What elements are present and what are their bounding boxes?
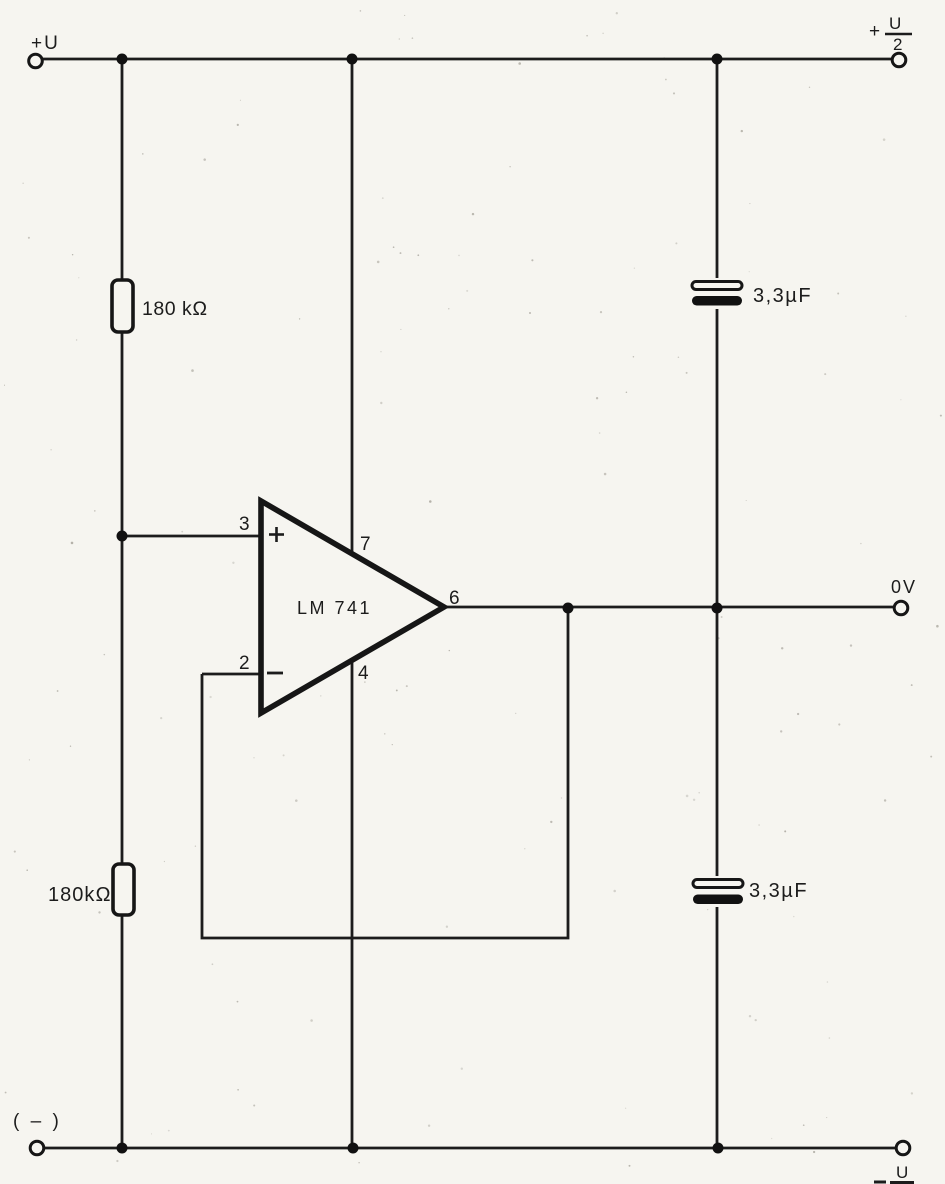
terminal (-) (30, 1141, 44, 1155)
svg-text:LM 741: LM 741 (297, 598, 372, 618)
wire bottom rail (-) (45, 1147, 895, 1150)
svg-text:U: U (889, 14, 901, 33)
junction output-cap node (712, 603, 723, 614)
svg-text:+U: +U (31, 33, 60, 54)
junction bottom-left (117, 1143, 128, 1154)
junction bottom-middle (348, 1143, 359, 1154)
capacitor C2 (electrolytic) (693, 876, 743, 907)
svg-text:180 kΩ: 180 kΩ (142, 298, 208, 320)
svg-text:+: + (869, 21, 880, 42)
terminal +U (29, 54, 43, 68)
wire pin 3 input (122, 535, 259, 538)
label +U/2 (869, 14, 912, 54)
svg-text:2: 2 (239, 653, 250, 674)
wire top rail +U (43, 58, 891, 61)
resistor R1 body (112, 280, 133, 332)
junction top-right (712, 54, 723, 65)
wire left vertical (resistor divider) (121, 59, 124, 1148)
terminal +U/2 (892, 53, 906, 67)
wire right vertical (capacitor branch) (716, 59, 719, 1148)
svg-text:U: U (896, 1163, 908, 1182)
svg-text:3: 3 (239, 514, 250, 535)
svg-text:4: 4 (358, 663, 369, 684)
wire pin 2 input (202, 673, 259, 676)
op-amp plus input mark (269, 527, 284, 542)
label -U/2 (874, 1163, 914, 1183)
junction pin3 node (117, 531, 128, 542)
junction feedback-output node (563, 603, 574, 614)
svg-text:( – ): ( – ) (13, 1111, 62, 1132)
wire output 0V (444, 606, 893, 609)
svg-text:0V: 0V (891, 577, 917, 597)
junction top-middle (347, 54, 358, 65)
terminal 0V (894, 601, 908, 615)
junction top-left (117, 54, 128, 65)
terminal -U/2 (896, 1141, 910, 1155)
capacitor C1 (electrolytic) (692, 278, 742, 309)
svg-text:3,3µF: 3,3µF (753, 285, 812, 307)
svg-text:7: 7 (360, 534, 371, 555)
junction bottom-right (713, 1143, 724, 1154)
svg-text:3,3µF: 3,3µF (749, 880, 808, 902)
svg-text:2: 2 (893, 35, 902, 54)
wire middle vertical (pins 7 and 4 supply) (351, 59, 354, 1148)
resistor R2 body (113, 864, 134, 915)
svg-text:180kΩ: 180kΩ (48, 884, 112, 906)
wire feedback loop (202, 608, 568, 938)
svg-text:6: 6 (449, 588, 460, 609)
op-amp U1 LM741 body (261, 501, 444, 713)
op-amp minus input mark (267, 672, 283, 675)
